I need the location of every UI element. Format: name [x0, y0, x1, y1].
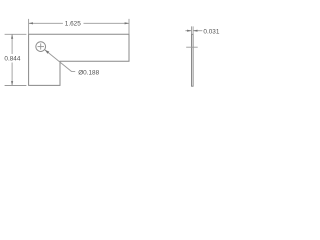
- dimension 1.625 extension lines: [29, 19, 129, 34]
- dimension 1.625 dimension line: [29, 22, 129, 24]
- dimension 1.625 arrowheads: [29, 22, 129, 24]
- hole callout leader line: [45, 50, 75, 72]
- dimension 0.031 extension lines: [192, 26, 194, 34]
- dimension 0.844 extension lines: [5, 34, 27, 85]
- dimension 0.844 arrowheads: [11, 34, 13, 85]
- part front view outline (L-shaped plate): [29, 34, 129, 85]
- dimension 0.844 dimension line: [11, 34, 13, 85]
- svg-text:1.625: 1.625: [65, 21, 81, 28]
- svg-text:Ø0.188: Ø0.188: [78, 69, 99, 76]
- hole circle: [36, 42, 46, 52]
- dimension 0.031 dimension lines: [185, 30, 202, 32]
- side view edge strip: [192, 34, 194, 86]
- side view hole centerline: [186, 46, 198, 48]
- svg-text:0.031: 0.031: [203, 28, 219, 35]
- dimension 0.031 arrowheads: [187, 30, 197, 32]
- svg-text:0.844: 0.844: [4, 56, 20, 63]
- hole callout arrowhead: [45, 50, 49, 54]
- hole center mark: [38, 43, 45, 49]
